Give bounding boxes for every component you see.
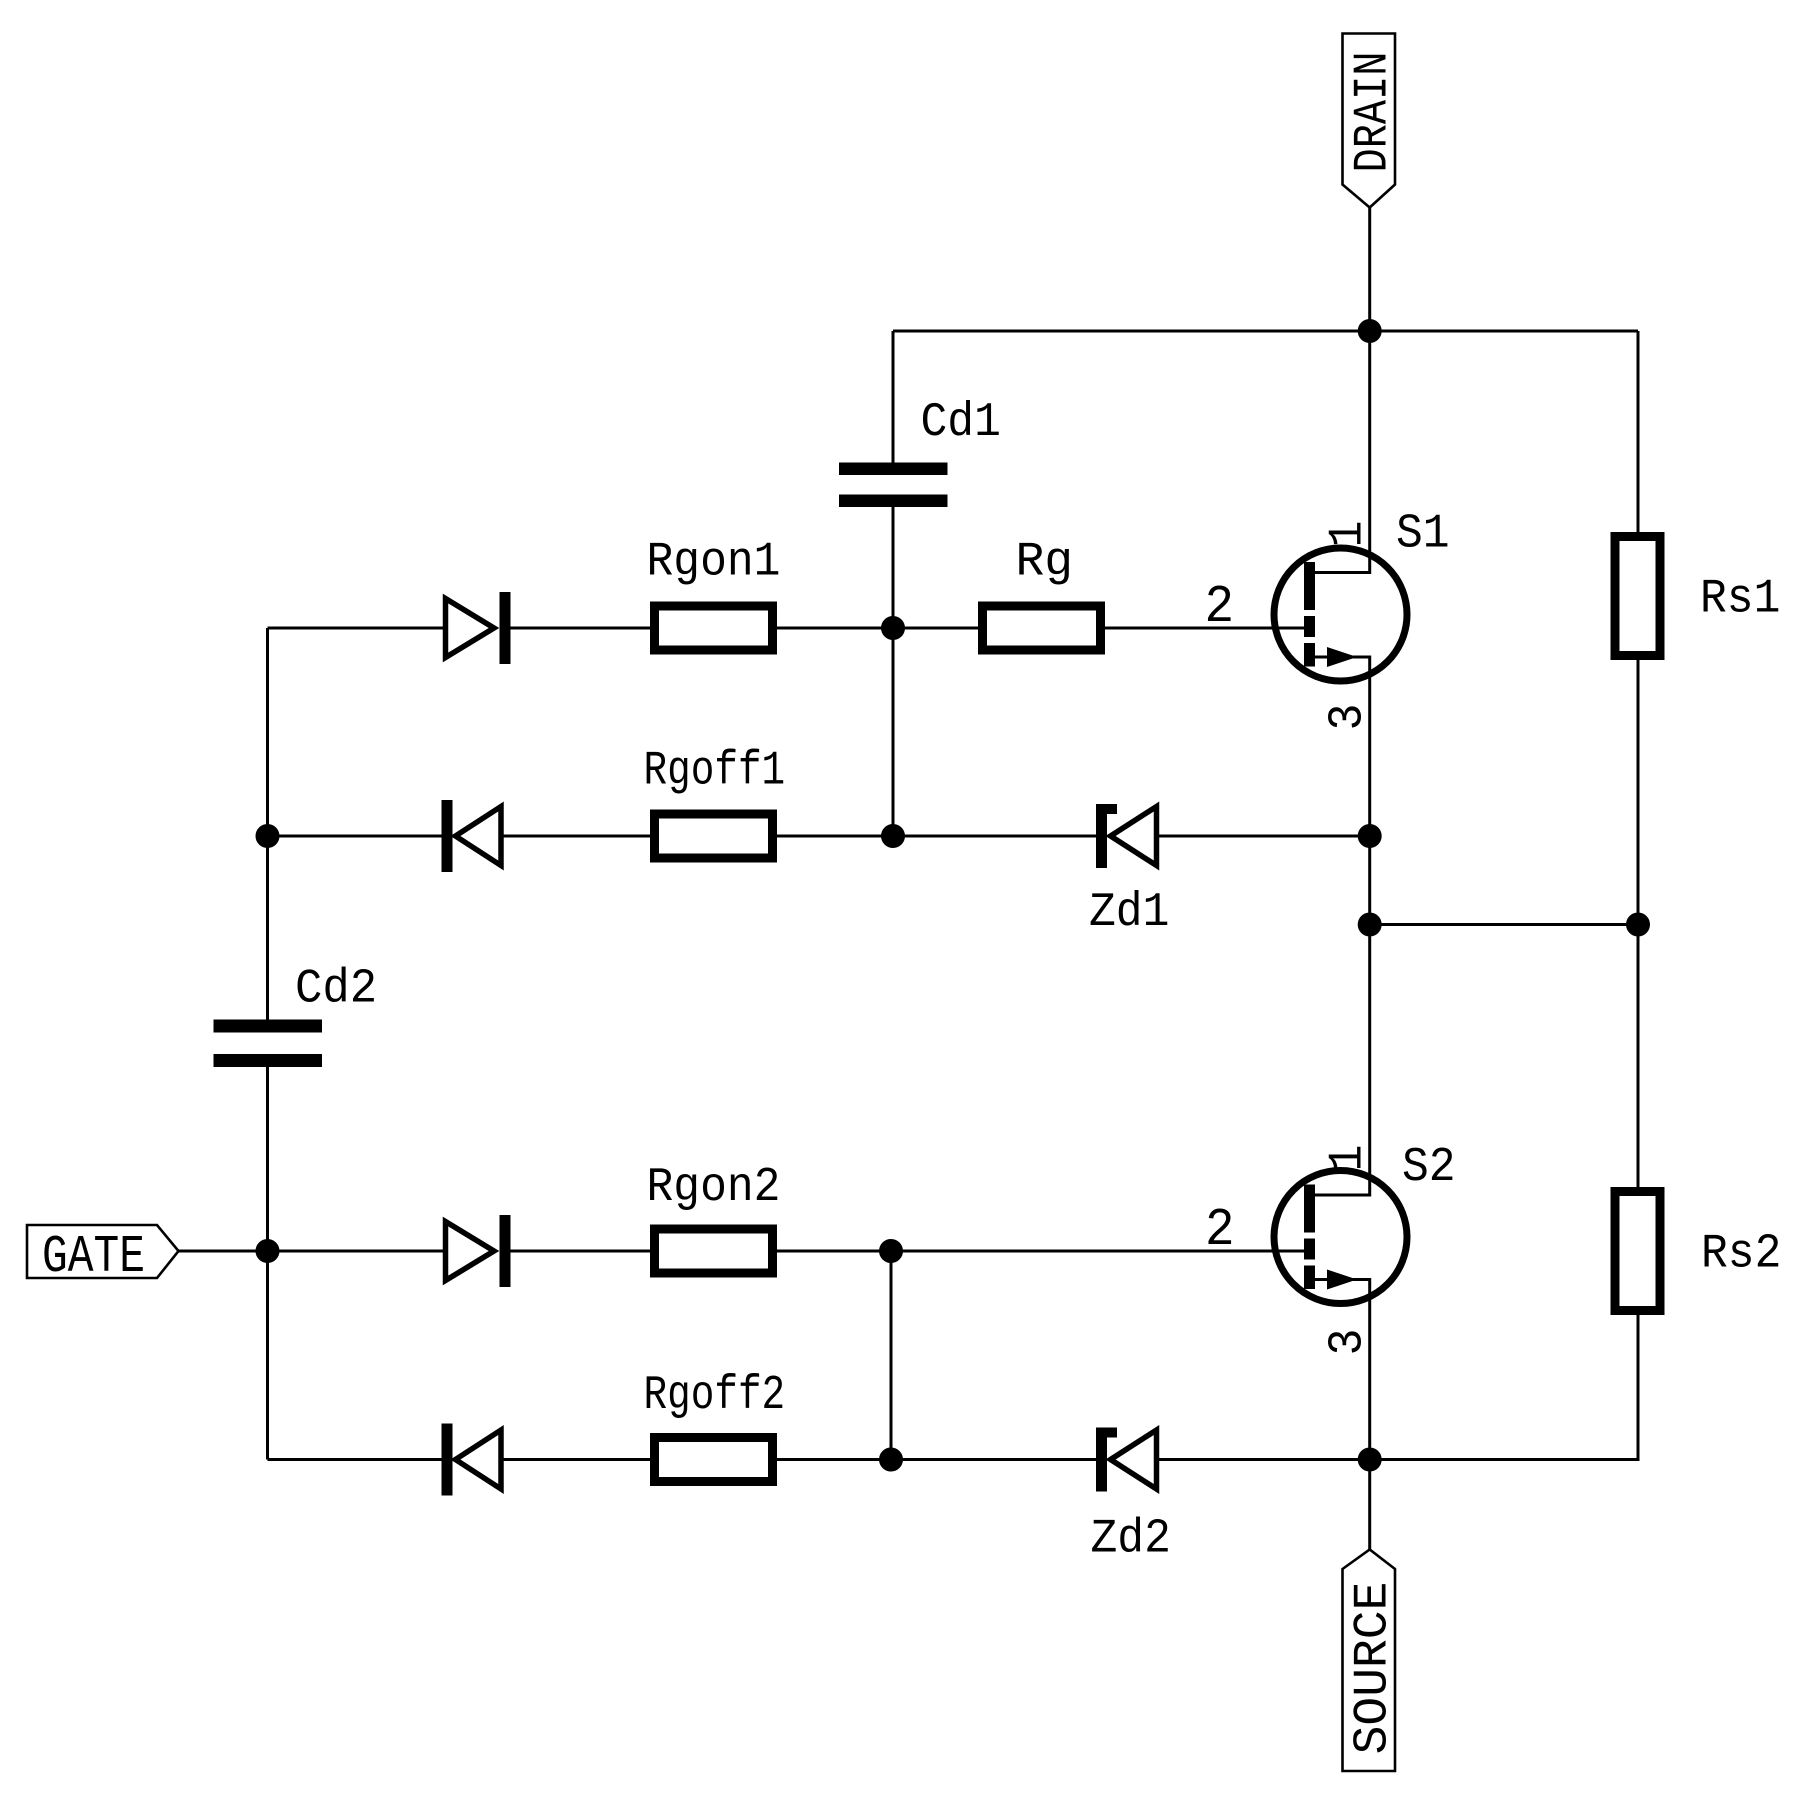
svg-text:Rs1: Rs1 [1700, 571, 1780, 626]
svg-text:GATE: GATE [42, 1228, 145, 1287]
junction row5 at middle column [879, 1448, 903, 1472]
svg-text:3: 3 [1320, 1329, 1375, 1356]
wire: S1 drain lead [1313, 331, 1370, 573]
junction row2 at S1 source [1358, 824, 1382, 848]
wire: row2 segment diode to Rgoff1 [452, 835, 655, 838]
wire: row5 segment Zd2 to SOURCE node [1157, 1458, 1370, 1461]
capacitor Cd2 [214, 1020, 323, 1068]
port flag SOURCE [1343, 1550, 1401, 1772]
wire: GATE lead [178, 1250, 268, 1253]
wire: row1 segment left [268, 627, 446, 630]
junction row2 at Cd1 column [881, 824, 905, 848]
junction row2 at left rail [256, 824, 280, 848]
svg-text:SOURCE: SOURCE [1347, 1582, 1401, 1755]
wire: row4 segment left [268, 1250, 446, 1253]
wire: Cd1 bottom column [892, 507, 895, 836]
resistor Rs1 [1615, 537, 1660, 656]
wire: row2 segment left [268, 835, 445, 838]
wire: S2 drain lead [1313, 925, 1370, 1196]
junction at GATE node [256, 1239, 280, 1263]
wire: row1 segment Rg to S1 gate [1100, 627, 1304, 630]
svg-text:Rgoff2: Rgoff2 [644, 1369, 786, 1424]
transistor S1 (MOSFET) [1274, 548, 1407, 681]
svg-text:2: 2 [1205, 578, 1235, 638]
junction at DRAIN node [1358, 319, 1382, 343]
junction row1 at Cd1 column [881, 616, 905, 640]
junction crossbar right [1626, 913, 1650, 937]
wire: left rail upper [266, 628, 269, 1020]
svg-text:S1: S1 [1396, 506, 1450, 561]
wire: top rail [893, 330, 1638, 333]
wire: DRAIN stem [1368, 206, 1371, 331]
diode D1 anode-right in Rgon1 branch [446, 592, 511, 664]
resistor Rgon1 [655, 606, 773, 650]
zener diode Zd2 [1096, 1428, 1157, 1492]
wire: S1 source lead [1313, 657, 1370, 925]
capacitor Cd1 [839, 463, 948, 508]
svg-text:Rgon2: Rgon2 [647, 1160, 781, 1215]
wire: right rail upper [1637, 331, 1640, 537]
resistor Rs2 [1615, 1192, 1660, 1311]
svg-text:3: 3 [1320, 704, 1375, 731]
wire: row2 segment Rgoff1 to Zd1 [772, 835, 1098, 838]
svg-text:1: 1 [1320, 521, 1375, 548]
wire: right rail middle [1637, 655, 1640, 1192]
wire: left rail lower [266, 1067, 269, 1460]
wire: crossbar S1 source to Rs rail [1370, 923, 1638, 926]
wire: right rail lower [1370, 1311, 1638, 1460]
wire: row1 segment diode to Rgon1 [510, 627, 655, 630]
wire: S2 source lead [1313, 1280, 1370, 1550]
svg-text:Zd1: Zd1 [1089, 885, 1169, 940]
resistor Rgoff1 [655, 814, 773, 858]
port flag GATE [27, 1225, 179, 1287]
wire: row5 segment left [268, 1458, 445, 1461]
junction row4 at middle column [879, 1239, 903, 1263]
svg-text:1: 1 [1320, 1145, 1375, 1172]
svg-text:2: 2 [1205, 1201, 1235, 1261]
resistor Rgon2 [655, 1229, 773, 1273]
wire: row5 segment Rgoff2 to Zd2 [772, 1458, 1098, 1461]
transistor S2 (MOSFET) [1274, 1171, 1407, 1304]
wire: row1 segment Rgon1 to Rg [772, 627, 983, 630]
diode D2 anode-left in Rgoff1 branch [442, 800, 502, 872]
svg-text:Cd2: Cd2 [295, 963, 377, 1017]
svg-text:S2: S2 [1402, 1140, 1456, 1195]
wire: row4 segment diode to Rgon2 [510, 1250, 655, 1253]
diode D4 anode-left in Rgoff2 branch [442, 1424, 502, 1496]
diode D3 anode-right in Rgon2 branch [446, 1215, 511, 1287]
junction crossbar left [1358, 913, 1382, 937]
svg-text:Cd1: Cd1 [921, 395, 1001, 450]
svg-text:Rgon1: Rgon1 [647, 534, 781, 589]
port flag DRAIN [1343, 34, 1401, 208]
wire: middle column Rgon2 to Rgoff2 [890, 1251, 893, 1460]
wire: row2 segment Zd1 to S1 source [1157, 835, 1370, 838]
svg-text:Rs2: Rs2 [1701, 1226, 1781, 1281]
svg-text:DRAIN: DRAIN [1347, 52, 1401, 173]
wire: row4 segment Rgon2 to S2 gate [772, 1250, 1304, 1253]
resistor Rg [983, 606, 1101, 650]
wire: row5 segment diode to Rgoff2 [452, 1458, 655, 1461]
resistor Rgoff2 [655, 1438, 773, 1482]
svg-text:Zd2: Zd2 [1091, 1511, 1171, 1566]
svg-text:Rgoff1: Rgoff1 [644, 744, 786, 799]
svg-text:Rg: Rg [1016, 536, 1074, 590]
wire: Cd1 top column [892, 331, 895, 463]
junction at SOURCE node [1358, 1448, 1382, 1472]
zener diode Zd1 [1096, 804, 1157, 868]
